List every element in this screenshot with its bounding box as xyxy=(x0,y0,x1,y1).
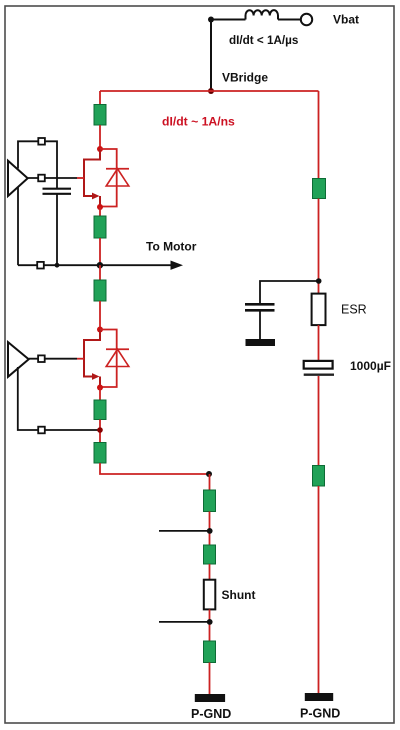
transistor Q2 xyxy=(84,330,100,388)
wire xyxy=(318,486,320,693)
wire VBridge rail xyxy=(100,90,319,92)
resistor R6 xyxy=(204,490,216,512)
wire right branch upper xyxy=(318,91,320,179)
node Vbat-top junction xyxy=(208,17,214,23)
node bulk cap top xyxy=(316,278,322,284)
op-amp driver U1 xyxy=(8,161,28,196)
capacitor C1 xyxy=(43,189,72,194)
wire xyxy=(99,301,101,330)
wire xyxy=(99,238,101,265)
capacitor C3 1000uF plus plate xyxy=(304,361,333,369)
svg-text:Vbat: Vbat xyxy=(333,13,359,27)
resistor R2 xyxy=(94,216,106,238)
wire xyxy=(99,265,101,280)
node Q1 drain xyxy=(97,146,103,152)
wire to bypass cap xyxy=(260,281,319,304)
terminal square U2 bottom xyxy=(38,427,45,434)
wire source rail xyxy=(18,264,100,266)
wire xyxy=(318,199,320,294)
terminal square U2 output xyxy=(38,355,45,362)
inductor L1 xyxy=(246,10,279,19)
wire xyxy=(99,125,101,149)
wire xyxy=(209,512,211,546)
wire U2 bottom return xyxy=(18,367,100,430)
svg-text:To Motor: To Motor xyxy=(146,240,197,254)
wire xyxy=(99,91,101,105)
diode D1 xyxy=(106,169,129,186)
node sense tap 2 xyxy=(207,619,213,625)
wire xyxy=(209,474,211,490)
node Q2 source xyxy=(97,385,103,391)
resistor R3 xyxy=(94,280,106,301)
wire U1 output to gate xyxy=(28,177,77,179)
arrow to motor xyxy=(171,261,184,270)
svg-text:VBridge: VBridge xyxy=(222,71,268,85)
node U2 return junction xyxy=(97,427,103,433)
wire to motor xyxy=(100,264,172,266)
wire Q1 gate red stub xyxy=(77,177,84,179)
wire xyxy=(318,376,320,466)
svg-text:P-GND: P-GND xyxy=(300,707,340,721)
op-amp driver U2 xyxy=(8,342,29,377)
node Q1 source xyxy=(97,204,103,210)
wire xyxy=(99,420,101,443)
wire xyxy=(278,19,301,21)
wire xyxy=(99,388,101,401)
wire xyxy=(209,663,211,695)
svg-text:Shunt: Shunt xyxy=(222,588,256,602)
node VBridge xyxy=(208,88,214,94)
transistor Q2 arrow xyxy=(92,373,100,380)
node motor phase xyxy=(97,262,103,268)
wire xyxy=(209,564,211,580)
wire sense tap 2 xyxy=(159,621,210,623)
wire U1 top loop xyxy=(18,141,57,188)
node C1-source rail junction xyxy=(55,263,60,268)
resistor Shunt xyxy=(204,580,216,610)
wire sense tap 1 xyxy=(159,530,210,532)
wire C1 to source rail xyxy=(56,194,58,265)
svg-text:ESR: ESR xyxy=(341,303,367,317)
capacitor C3 minus plate xyxy=(304,374,334,376)
wire C2 to ground xyxy=(259,312,261,340)
wire xyxy=(211,19,246,21)
resistor R10 xyxy=(313,466,325,487)
svg-text:dI/dt ~ 1A/ns: dI/dt ~ 1A/ns xyxy=(162,115,235,129)
resistor R4 xyxy=(94,400,106,420)
resistor R7 xyxy=(204,545,216,564)
diode D2 cathode bar xyxy=(106,348,129,350)
terminal Vbat xyxy=(301,14,312,25)
node sense tap 1 xyxy=(207,528,213,534)
wire xyxy=(99,207,101,216)
diode D1 cathode bar xyxy=(106,168,129,170)
transistor Q1 xyxy=(84,149,100,207)
wire Q2 gate red stub xyxy=(77,358,84,360)
diode D2 xyxy=(106,349,129,366)
capacitor C2 xyxy=(245,304,275,310)
terminal square U1 bottom xyxy=(37,262,44,269)
wire U1 bottom return xyxy=(17,187,19,265)
wire U2 output to gate xyxy=(29,358,77,360)
wire xyxy=(318,325,320,361)
wire xyxy=(209,609,211,641)
resistor R9 xyxy=(313,179,326,199)
wire to shunt branch xyxy=(100,463,210,474)
ground C2 xyxy=(246,339,276,346)
resistor R1 (ferrite) xyxy=(94,105,106,126)
ground P-GND left xyxy=(195,694,225,702)
resistor ESR xyxy=(312,294,326,326)
terminal square U1 output xyxy=(38,175,45,182)
diode D2 branch wire xyxy=(100,330,117,388)
node Q2 drain xyxy=(97,327,103,333)
node shunt branch top xyxy=(206,471,212,477)
svg-text:1000µF: 1000µF xyxy=(350,359,391,373)
svg-text:P-GND: P-GND xyxy=(191,707,231,721)
wire xyxy=(210,20,212,92)
resistor R5 xyxy=(94,443,106,464)
svg-text:dI/dt < 1A/µs: dI/dt < 1A/µs xyxy=(229,34,299,47)
transistor Q1 arrow xyxy=(92,193,100,200)
resistor R8 xyxy=(204,641,216,663)
ground P-GND right xyxy=(305,693,333,701)
terminal square U1 top xyxy=(38,138,45,145)
diode D1 branch wire xyxy=(100,149,117,207)
